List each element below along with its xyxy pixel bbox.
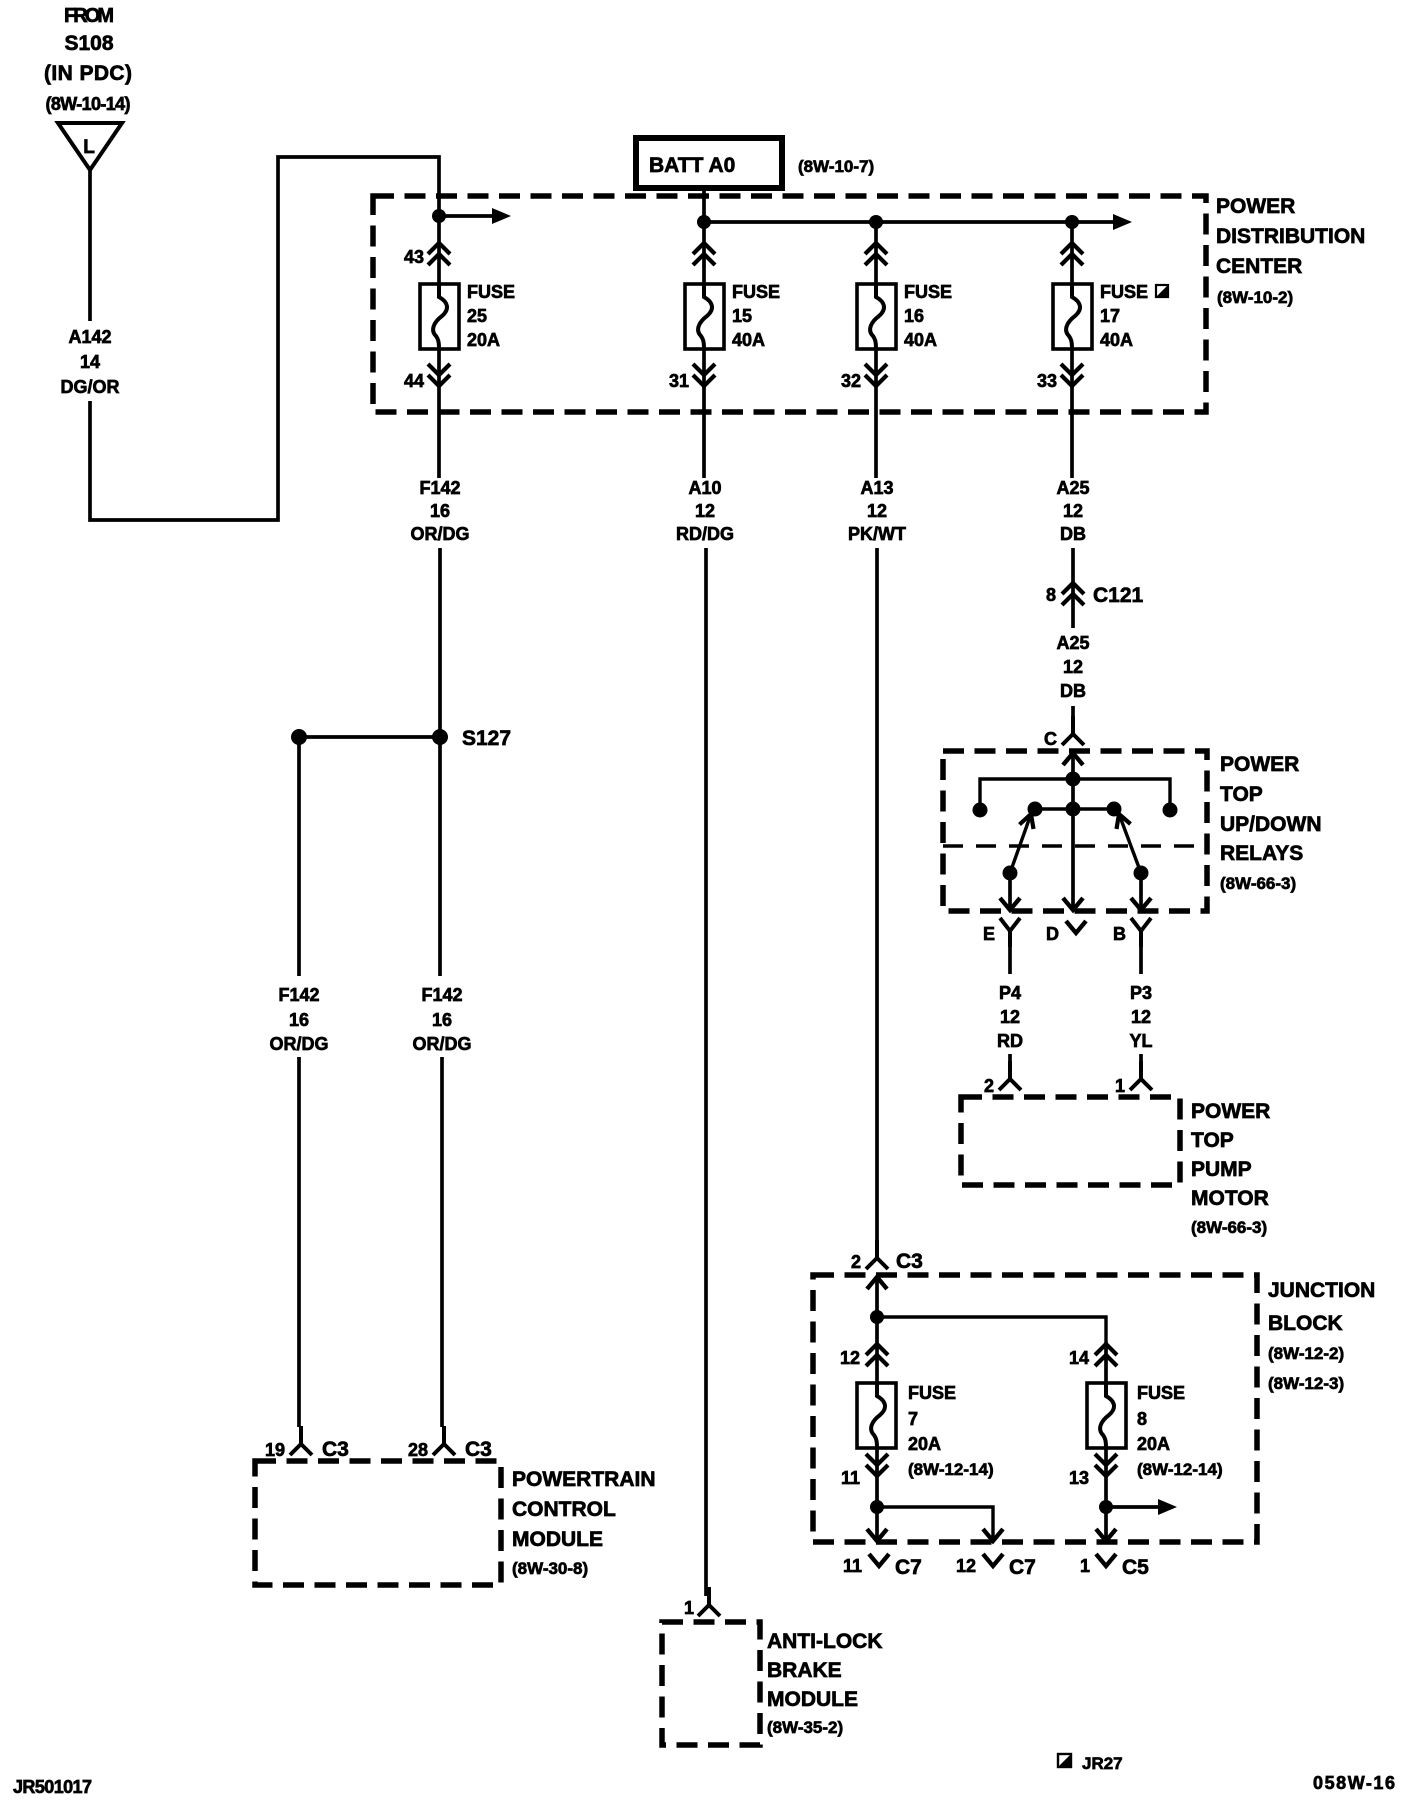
svg-text:JR501017: JR501017 — [13, 1777, 92, 1797]
svg-text:2: 2 — [984, 1076, 994, 1096]
svg-text:YL: YL — [1129, 1031, 1152, 1051]
svg-text:(8W-12-14): (8W-12-14) — [1137, 1460, 1223, 1479]
wire col1 to S127 — [438, 548, 442, 737]
label A13 12 PK/WT — [848, 478, 906, 544]
svg-text:C3: C3 — [322, 1438, 349, 1461]
label F142 16 OR/DG col1 — [410, 478, 469, 544]
svg-text:POWER: POWER — [1216, 195, 1295, 218]
svg-text:D: D — [1046, 924, 1059, 944]
node JB lower left — [870, 1500, 884, 1514]
svg-text:15: 15 — [732, 306, 752, 326]
label P3 12 YL — [1129, 983, 1152, 1051]
connector PCM pin28 fork — [408, 1426, 492, 1461]
connector E fork — [983, 918, 1020, 947]
node junction fuse25 feed — [432, 209, 446, 223]
svg-text:1: 1 — [1080, 1556, 1090, 1576]
svg-text:JUNCTION: JUNCTION — [1268, 1279, 1375, 1302]
pin 31 connector chevrons — [669, 349, 715, 478]
arrow continuation right of fuse8 — [1106, 1499, 1177, 1515]
connector chevrons col2 — [693, 243, 715, 265]
connector C121 pin 8 — [1046, 583, 1144, 607]
svg-text:12: 12 — [956, 1556, 976, 1576]
label POWER TOP UP/DOWN RELAYS — [1220, 753, 1322, 893]
pin 11 connector chevrons JB — [841, 1448, 888, 1507]
svg-text:BLOCK: BLOCK — [1268, 1312, 1343, 1335]
arrow continuation right of fuse25 node — [439, 208, 511, 224]
svg-text:RELAYS: RELAYS — [1220, 842, 1303, 865]
node armature left pivot — [1003, 866, 1018, 881]
svg-text:17: 17 — [1100, 306, 1120, 326]
wire relay E leg with arrow down — [1000, 873, 1020, 910]
BATT A0 box — [636, 138, 782, 188]
svg-text:C5: C5 — [1122, 1556, 1149, 1579]
connector pump pin1 fork — [1115, 1054, 1152, 1096]
svg-text:OR/DG: OR/DG — [410, 524, 469, 544]
node contact left outer — [973, 803, 988, 818]
relay contact rail — [1035, 807, 1114, 810]
fuse 16 40A — [857, 284, 896, 349]
svg-text:19: 19 — [265, 1440, 285, 1460]
wire A142 lower run to PDC — [90, 157, 439, 520]
svg-text:A25: A25 — [1056, 633, 1089, 653]
svg-text:PK/WT: PK/WT — [848, 524, 906, 544]
svg-text:20A: 20A — [908, 1434, 941, 1454]
svg-text:OR/DG: OR/DG — [269, 1034, 328, 1054]
label ANTI-LOCK BRAKE MODULE — [767, 1630, 882, 1737]
svg-text:12: 12 — [1063, 501, 1083, 521]
connector C fork — [1044, 716, 1084, 749]
svg-text:32: 32 — [841, 371, 861, 391]
svg-text:OR/DG: OR/DG — [412, 1034, 471, 1054]
wire relay D leg with arrow down — [1063, 779, 1083, 910]
pin 32 connector chevrons — [841, 349, 887, 478]
svg-text:25: 25 — [467, 306, 487, 326]
svg-text:MOTOR: MOTOR — [1191, 1187, 1269, 1210]
svg-text:DG/OR: DG/OR — [60, 377, 119, 397]
label FUSE 25 20A — [467, 282, 515, 350]
label FUSE 7 20A (8W-12-14) — [908, 1383, 994, 1479]
svg-text:12: 12 — [840, 1348, 860, 1368]
svg-text:ANTI-LOCK: ANTI-LOCK — [767, 1630, 882, 1653]
wire right branch to PCM — [440, 1057, 444, 1427]
svg-text:FROM: FROM — [64, 5, 114, 27]
junction block box — [813, 1275, 1257, 1542]
node contact left inner — [1028, 802, 1043, 817]
svg-text:11: 11 — [843, 1556, 862, 1576]
node junction A25 — [1065, 215, 1079, 229]
connector 1 C5 — [1080, 1554, 1149, 1579]
pin 14 connector chevrons JB — [1069, 1342, 1117, 1385]
svg-text:TOP: TOP — [1191, 1129, 1234, 1152]
pin 33 connector chevrons — [1037, 349, 1083, 478]
label POWER DISTRIBUTION CENTER — [1216, 195, 1365, 307]
node S127 left — [291, 729, 307, 745]
label A10 12 RD/DG — [676, 478, 734, 544]
svg-text:12: 12 — [1063, 657, 1083, 677]
svg-text:FUSE: FUSE — [732, 282, 780, 302]
wire col2 long run to ABM — [704, 548, 708, 1596]
svg-text:POWER: POWER — [1220, 753, 1299, 776]
relay armature left with arrow — [1010, 814, 1034, 873]
svg-text:(IN PDC): (IN PDC) — [44, 62, 132, 85]
svg-text:PUMP: PUMP — [1191, 1158, 1252, 1181]
relay common rail — [980, 779, 1170, 810]
wire left branch to PCM — [297, 1057, 301, 1427]
svg-text:P3: P3 — [1130, 983, 1152, 1003]
svg-text:C3: C3 — [896, 1250, 923, 1273]
label JUNCTION BLOCK — [1268, 1279, 1375, 1393]
svg-text:L: L — [83, 137, 95, 158]
node contact center — [1066, 802, 1081, 817]
arrow into relay box at C — [1063, 753, 1083, 779]
svg-text:DB: DB — [1060, 681, 1086, 701]
svg-text:F142: F142 — [421, 985, 462, 1005]
svg-text:(8W-10-7): (8W-10-7) — [798, 157, 874, 176]
pin 43 connector chevrons — [404, 243, 450, 267]
wire BATT A0 to bus — [702, 188, 706, 222]
svg-text:JR27: JR27 — [1082, 1754, 1123, 1773]
power distribution center box — [373, 196, 1206, 412]
svg-text:(8W-35-2): (8W-35-2) — [767, 1718, 843, 1737]
svg-text:44: 44 — [404, 371, 424, 391]
wire JB rail to C7-12 with arrow down — [877, 1507, 1003, 1541]
svg-text:A10: A10 — [688, 478, 721, 498]
label A25 12 DB — [1056, 478, 1089, 544]
svg-text:(8W-66-3): (8W-66-3) — [1220, 874, 1296, 893]
svg-text:43: 43 — [404, 247, 424, 267]
svg-text:A142: A142 — [68, 327, 111, 347]
svg-text:28: 28 — [408, 1440, 428, 1460]
wire JB pin1 leg arrow down — [1096, 1507, 1116, 1541]
fuse 17 40A — [1053, 284, 1092, 349]
svg-text:RD: RD — [997, 1031, 1023, 1051]
svg-text:MODULE: MODULE — [767, 1688, 858, 1711]
svg-text:E: E — [983, 924, 995, 944]
connector chevrons col3 — [865, 243, 887, 265]
pin 44 connector chevrons — [404, 349, 450, 478]
pin 12 connector chevrons JB — [840, 1317, 888, 1385]
svg-text:1: 1 — [1115, 1076, 1125, 1096]
svg-text:F142: F142 — [278, 985, 319, 1005]
svg-text:(8W-30-8): (8W-30-8) — [512, 1559, 588, 1578]
svg-text:(8W-10-2): (8W-10-2) — [1217, 288, 1293, 307]
svg-text:CONTROL: CONTROL — [512, 1498, 616, 1521]
label FUSE 8 20A (8W-12-14) — [1137, 1383, 1223, 1479]
wire left branch down — [297, 737, 301, 976]
svg-text:FUSE: FUSE — [1137, 1383, 1185, 1403]
connector pump pin2 fork — [984, 1054, 1021, 1096]
wire S127 branch left — [299, 735, 440, 739]
svg-text:C121: C121 — [1093, 584, 1144, 607]
svg-text:2: 2 — [851, 1252, 861, 1272]
svg-text:16: 16 — [289, 1010, 309, 1030]
wire right branch down from S127 — [438, 737, 442, 976]
label A25 12 DB below C121 — [1056, 633, 1089, 701]
svg-text:C7: C7 — [895, 1556, 922, 1579]
wire P3 — [1139, 947, 1143, 974]
connector B fork — [1113, 918, 1151, 947]
triangle connector L from S108 — [58, 123, 122, 170]
svg-text:14: 14 — [80, 352, 100, 372]
label FUSE 15 40A — [732, 282, 780, 350]
node S127 splice — [432, 727, 511, 750]
svg-text:B: B — [1113, 924, 1126, 944]
fuse 7 20A — [857, 1383, 896, 1448]
label FUSE 17 40A with JR27 mark — [1100, 282, 1168, 350]
arrow into JB at pin2 — [867, 1277, 887, 1317]
node JB lower right — [1099, 1500, 1113, 1514]
wire P4 — [1008, 947, 1012, 974]
svg-text:A13: A13 — [860, 478, 893, 498]
connector 11 C7 — [843, 1554, 922, 1579]
svg-text:16: 16 — [432, 1010, 452, 1030]
label F142 16 OR/DG left — [269, 985, 328, 1054]
connector ABM pin1 fork — [684, 1587, 720, 1618]
label POWERTRAIN CONTROL MODULE — [512, 1468, 656, 1578]
relay box inner dashed divider — [943, 844, 1207, 848]
svg-text:FUSE: FUSE — [1100, 282, 1148, 302]
svg-text:13: 13 — [1069, 1468, 1089, 1488]
svg-text:FUSE: FUSE — [467, 282, 515, 302]
svg-text:(8W-12-2): (8W-12-2) — [1268, 1344, 1344, 1363]
svg-text:12: 12 — [1000, 1007, 1020, 1027]
svg-text:058W-16: 058W-16 — [1313, 1773, 1395, 1793]
connector D chevron — [1046, 921, 1086, 944]
wire col2 top — [702, 222, 706, 286]
svg-text:CENTER: CENTER — [1216, 255, 1302, 278]
svg-text:DISTRIBUTION: DISTRIBUTION — [1216, 225, 1365, 248]
svg-text:33: 33 — [1037, 371, 1057, 391]
fuse 8 20A — [1087, 1383, 1126, 1448]
svg-text:A25: A25 — [1056, 478, 1089, 498]
svg-text:C7: C7 — [1009, 1556, 1036, 1579]
svg-text:20A: 20A — [1137, 1434, 1170, 1454]
svg-text:FUSE: FUSE — [908, 1383, 956, 1403]
svg-text:RD/DG: RD/DG — [676, 524, 734, 544]
svg-text:(8W-10-14): (8W-10-14) — [46, 94, 131, 114]
anti-lock brake module box — [662, 1622, 760, 1745]
fuse 15 40A — [685, 284, 724, 349]
svg-text:POWER: POWER — [1191, 1100, 1270, 1123]
label F142 16 OR/DG right — [412, 985, 471, 1054]
node contact right inner — [1107, 802, 1122, 817]
svg-text:FUSE: FUSE — [904, 282, 952, 302]
svg-text:40A: 40A — [1100, 330, 1133, 350]
svg-text:8: 8 — [1046, 585, 1056, 605]
svg-text:16: 16 — [430, 501, 450, 521]
fuse 25 20A — [420, 284, 459, 349]
svg-text:7: 7 — [908, 1409, 918, 1429]
wire col4 to relay box — [1071, 706, 1075, 734]
wire relay B leg with arrow down — [1131, 873, 1151, 910]
svg-text:12: 12 — [867, 501, 887, 521]
wire JB pin11 leg arrow down — [867, 1507, 887, 1541]
wire JB rail to fuse8 — [877, 1317, 1106, 1342]
svg-text:F142: F142 — [419, 478, 460, 498]
svg-text:40A: 40A — [904, 330, 937, 350]
svg-text:BATT A0: BATT A0 — [649, 154, 735, 177]
node relay C center — [1066, 772, 1081, 787]
svg-text:20A: 20A — [467, 330, 500, 350]
connector PCM pin19 fork — [265, 1426, 349, 1461]
label P4 12 RD — [997, 983, 1023, 1051]
svg-text:1: 1 — [684, 1598, 694, 1618]
label POWER TOP PUMP MOTOR — [1191, 1100, 1270, 1237]
svg-text:MODULE: MODULE — [512, 1528, 603, 1551]
connector 12 C7 — [956, 1554, 1036, 1579]
svg-text:12: 12 — [1131, 1007, 1151, 1027]
svg-text:TOP: TOP — [1220, 783, 1263, 806]
label FROM S108 (IN PDC) (8W-10-14) — [44, 5, 132, 114]
label A142 14 DG/OR — [60, 327, 119, 397]
bus wire from BATT to fuses with arrow — [704, 214, 1132, 230]
svg-text:DB: DB — [1060, 524, 1086, 544]
svg-text:16: 16 — [904, 306, 924, 326]
wire A142 from triangle — [88, 170, 92, 321]
wire col3 top — [874, 222, 878, 286]
svg-text:8: 8 — [1137, 1409, 1147, 1429]
svg-text:UP/DOWN: UP/DOWN — [1220, 813, 1322, 836]
svg-text:S127: S127 — [462, 727, 511, 750]
wire col4 to C121 — [1071, 548, 1075, 628]
svg-text:C3: C3 — [465, 1438, 492, 1461]
svg-text:(8W-66-3): (8W-66-3) — [1191, 1218, 1267, 1237]
svg-text:31: 31 — [669, 371, 689, 391]
node junction A13 — [869, 215, 883, 229]
wire col1 top — [437, 216, 441, 286]
power top pump motor box — [961, 1097, 1180, 1185]
svg-text:S108: S108 — [65, 32, 114, 55]
svg-text:14: 14 — [1069, 1348, 1089, 1368]
svg-text:12: 12 — [695, 501, 715, 521]
node JB split — [870, 1310, 884, 1324]
svg-text:BRAKE: BRAKE — [767, 1659, 842, 1682]
node junction A10 — [697, 215, 711, 229]
svg-text:(8W-12-14): (8W-12-14) — [908, 1460, 994, 1479]
wire col4 top — [1070, 222, 1074, 286]
label FUSE 16 40A — [904, 282, 952, 350]
svg-text:C: C — [1044, 729, 1057, 749]
connector JB pin2 C3 fork — [851, 1240, 923, 1273]
svg-text:11: 11 — [841, 1468, 860, 1488]
wire col3 long run to junction block — [875, 548, 879, 1242]
powertrain control module box — [255, 1461, 501, 1585]
svg-text:P4: P4 — [999, 983, 1021, 1003]
footer JR27 mark — [1058, 1754, 1123, 1773]
svg-text:40A: 40A — [732, 330, 765, 350]
power top up/down relays box — [943, 751, 1207, 911]
svg-text:(8W-12-3): (8W-12-3) — [1268, 1374, 1344, 1393]
svg-text:POWERTRAIN: POWERTRAIN — [512, 1468, 656, 1491]
pin 13 connector chevrons JB — [1069, 1448, 1117, 1507]
node armature right pivot — [1134, 866, 1149, 881]
node contact right outer — [1163, 803, 1178, 818]
relay armature right with arrow — [1117, 814, 1142, 873]
connector chevrons col4 — [1061, 243, 1083, 265]
